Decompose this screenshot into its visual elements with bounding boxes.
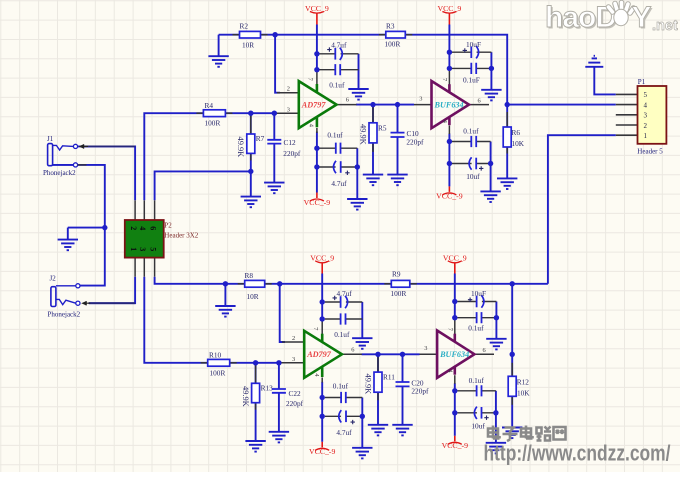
ground bottom BUF634 lower decoupling <box>486 443 506 454</box>
wire C12 column from pin3 node <box>273 113 275 140</box>
wire bottom AD797 lower cap right column to ground <box>361 398 363 448</box>
power VCC_-9 top BUF634 <box>436 186 463 200</box>
capacitor 0.1uf top AD797 positive rail <box>335 64 340 75</box>
svg-text:0.1uf: 0.1uf <box>334 330 350 339</box>
svg-text:AD797: AD797 <box>301 100 327 109</box>
pin numbers BUF634 bottom <box>424 328 486 374</box>
wire bottom output node junction to main row <box>511 284 513 355</box>
resistor R3 100R <box>379 31 413 38</box>
wire P1 pin 1 down to bottom channel row <box>548 135 616 284</box>
capacitor leads bottom AD797 clusters <box>325 302 363 416</box>
wire P1 pin 5 to earth <box>594 67 616 94</box>
wire bottom output row AD797 to BUF634 <box>362 353 420 355</box>
connector P1 Header 5 <box>638 86 667 144</box>
svg-text:100R: 100R <box>385 40 401 49</box>
wire R12 column <box>511 354 513 376</box>
svg-text:VCC_-9: VCC_-9 <box>304 198 331 207</box>
wire top feedback row R2-R3 to output corner <box>219 35 508 105</box>
svg-text:VCC_9: VCC_9 <box>443 253 467 262</box>
svg-text:P1: P1 <box>638 78 646 86</box>
svg-text:R6: R6 <box>512 128 521 137</box>
svg-text:R3: R3 <box>386 22 395 31</box>
wire AD797 pin 4 column to VCC_-9 <box>316 132 318 193</box>
svg-text:Header 5: Header 5 <box>637 148 663 156</box>
ground below R5 <box>363 175 383 186</box>
svg-text:P2: P2 <box>164 222 172 230</box>
wire J2 contact to P2 pin 1 <box>89 277 135 304</box>
power VCC_-9 top AD797 <box>304 193 331 207</box>
power VCC_-9 bottom AD797 <box>309 442 336 456</box>
svg-text:R4: R4 <box>205 101 214 110</box>
svg-text:6: 6 <box>483 347 486 354</box>
wire J1 tip dark pin overlay <box>84 145 135 147</box>
svg-text:Phonejack2: Phonejack2 <box>43 169 76 177</box>
wire bottom pin2 node drop to AD797 pin 2 <box>280 284 285 342</box>
svg-text:4: 4 <box>644 101 648 109</box>
svg-text:0.1uf: 0.1uf <box>469 376 485 385</box>
wire C20 column <box>402 354 404 382</box>
svg-text:100R: 100R <box>205 119 221 128</box>
resistor R9 100R <box>384 280 417 287</box>
svg-text:220pf: 220pf <box>406 137 424 146</box>
wire R7 column from pin3 node <box>250 113 252 134</box>
resistor R7 49.9K <box>247 114 255 160</box>
capacitor 0.1uf bottom AD797 negative rail <box>341 392 346 403</box>
ground phone jack common <box>58 240 78 251</box>
wire pin2 node drop to AD797 pin 2 <box>275 35 280 93</box>
capacitor C12 220pf <box>267 140 281 144</box>
svg-text:4.7uf: 4.7uf <box>337 289 353 298</box>
resistor R2 10R <box>233 31 268 38</box>
capacitor 4.7uf bottom AD797 positive rail <box>333 296 348 309</box>
svg-text:2: 2 <box>644 122 648 130</box>
svg-text:10R: 10R <box>247 292 259 301</box>
svg-text:4.7uf: 4.7uf <box>331 41 347 50</box>
pin numbers P2 <box>129 226 158 251</box>
wire bottom BUF634 VCC_9 column <box>454 274 456 320</box>
svg-text:0.1uf: 0.1uf <box>327 131 343 140</box>
resistor R10 100R <box>201 359 237 366</box>
buffer U-top BUF634 <box>432 81 470 128</box>
wire BUF634 top VCC_9 column <box>448 25 450 71</box>
svg-text:R11: R11 <box>383 373 395 382</box>
svg-text:10uf: 10uf <box>466 172 480 181</box>
svg-text:4: 4 <box>138 226 147 230</box>
svg-text:R12: R12 <box>517 378 530 387</box>
svg-text:C22: C22 <box>289 389 302 398</box>
ground top AD797 lower decoupling <box>347 199 367 210</box>
svg-text:2: 2 <box>129 226 138 230</box>
svg-text:3: 3 <box>419 96 422 103</box>
capacitor 10uF bottom BUF634 positive rail <box>468 295 484 307</box>
svg-text:49.9K: 49.9K <box>236 137 245 158</box>
ground bottom AD797 upper decoupling <box>352 338 372 349</box>
svg-text:4.7uf: 4.7uf <box>336 428 352 437</box>
svg-text:AD797: AD797 <box>306 350 332 359</box>
ground below C12 <box>264 183 284 194</box>
junction dots bottom half <box>223 281 515 419</box>
svg-text:J2: J2 <box>50 275 57 283</box>
wire BUF634 top upper cap right column to ground <box>490 52 492 90</box>
resistor R8 10R <box>238 280 272 287</box>
connector J2 Phonejack2 <box>51 284 90 307</box>
capacitor C10 220pf <box>391 133 405 137</box>
wire J2 contact dark pin overlay <box>89 302 136 304</box>
capacitor 0.1uf bottom AD797 positive rail <box>341 313 346 324</box>
capacitor leads top AD797 upper cluster <box>320 54 359 70</box>
pin stubs BUF634 top <box>414 68 489 134</box>
svg-text:BUF634: BUF634 <box>439 350 469 359</box>
pin numbers AD797 bottom <box>292 327 354 377</box>
svg-text:3: 3 <box>292 356 295 363</box>
svg-text:1: 1 <box>129 247 138 251</box>
wire top output node to P1 pin 4 <box>507 104 616 106</box>
wire J1 ring to common ground node and J2 tip <box>53 165 105 286</box>
pin numbers P1 <box>644 91 648 140</box>
wire BUF634 top pin 4 column to VCC_-9 <box>448 134 450 187</box>
resistor R6 10K <box>503 112 511 154</box>
svg-text:R10: R10 <box>209 350 222 359</box>
ground below C20 <box>392 425 412 436</box>
wire R11 column <box>377 354 379 372</box>
capacitor 0.1uf top AD797 negative rail <box>336 143 341 154</box>
pin stubs BUF634 bottom <box>420 318 495 384</box>
op-amp U-bottom AD797 <box>304 331 342 378</box>
svg-text:220pf: 220pf <box>411 387 429 396</box>
connector P2 Header 3X2 <box>125 220 164 258</box>
resistor R12 10K <box>508 363 516 405</box>
ground below R11 <box>368 425 388 436</box>
svg-text:10uF: 10uF <box>471 289 486 298</box>
ground top BUF634 upper decoupling <box>481 90 501 101</box>
resistor R13 49.9K <box>252 364 260 409</box>
capacitor 0.1uf bottom BUF634 negative rail <box>477 385 482 396</box>
svg-text:5: 5 <box>644 91 648 99</box>
svg-text:3: 3 <box>287 107 290 114</box>
wire R5 column <box>372 105 374 123</box>
wire top AD797 lower cap right column to ground <box>356 148 358 199</box>
capacitor 4.7uf top AD797 negative rail <box>334 161 350 175</box>
svg-text:http://www.cndzz.com/: http://www.cndzz.com/ <box>484 441 672 466</box>
svg-text:0.1uf: 0.1uf <box>468 323 484 332</box>
svg-text:haoD: haoD <box>545 1 616 34</box>
svg-text:220pf: 220pf <box>286 399 304 408</box>
resistor R4 100R <box>196 110 232 117</box>
svg-text:2: 2 <box>292 335 295 342</box>
wire bottom AD797 upper cap right column to ground <box>361 302 363 338</box>
svg-text:100R: 100R <box>391 289 407 298</box>
ground bottom AD797 lower decoupling <box>352 448 372 459</box>
wire feedback-reference row P2 pin6 to R7 bottom <box>155 171 251 200</box>
power VCC_9 bottom BUF634 <box>443 253 467 273</box>
capacitor leads top BUF634 clusters <box>452 52 491 163</box>
power pin bars BUF634 bottom <box>453 334 456 375</box>
svg-text:100R: 100R <box>210 369 226 378</box>
wire bottom main row P2 pin5 - R8 - R9 - P1 corner <box>155 277 548 284</box>
wire J1 tip to P2 pin 2 <box>78 146 136 200</box>
earth ground symbol above P1 pin 5 <box>585 56 603 67</box>
haoDIY.net watermark logo <box>545 1 678 36</box>
svg-text:5: 5 <box>148 247 157 251</box>
svg-text:0.1uf: 0.1uf <box>329 81 345 90</box>
capacitor C22 220pf <box>272 389 286 393</box>
capacitor 4.7uf bottom AD797 negative rail <box>339 410 355 424</box>
svg-text:R7: R7 <box>256 134 265 143</box>
svg-text:J1: J1 <box>47 135 54 143</box>
power pin bars AD797 top <box>316 84 319 127</box>
svg-text:3: 3 <box>644 112 648 120</box>
cndzz.com watermark text <box>484 426 672 466</box>
svg-text:.net: .net <box>652 18 678 34</box>
op-amp U-top AD797 <box>299 81 337 128</box>
pin stubs P1 header <box>616 94 638 135</box>
capacitor 10uf top BUF634 negative rail <box>469 157 483 170</box>
svg-text:VCC_9: VCC_9 <box>310 253 334 262</box>
svg-text:C12: C12 <box>284 138 297 147</box>
pin numbers BUF634 top <box>419 78 481 124</box>
resistor R5 49.9K <box>369 106 377 152</box>
ground bottom BUF634 upper decoupling <box>486 339 506 350</box>
connector J1 Phonejack2 <box>48 144 88 167</box>
svg-text:2: 2 <box>287 86 290 93</box>
capacitor 0.1uF bottom BUF634 positive rail <box>477 312 482 323</box>
svg-text:6: 6 <box>346 97 349 104</box>
ground top BUF634 lower decoupling <box>480 191 500 202</box>
junction dots top half <box>102 32 510 230</box>
capacitor C20 220pf <box>396 382 410 386</box>
svg-text:1: 1 <box>644 132 648 140</box>
svg-text:VCC_9: VCC_9 <box>437 4 461 13</box>
svg-text:R2: R2 <box>240 22 249 31</box>
svg-text:49.9K: 49.9K <box>241 386 250 407</box>
ground below C22 <box>269 432 289 443</box>
svg-text:0.1uF: 0.1uF <box>463 75 480 84</box>
resistor R11 49.9K <box>374 355 382 400</box>
svg-text:10R: 10R <box>242 40 254 49</box>
svg-text:VCC_-9: VCC_-9 <box>309 447 336 456</box>
wire R8 ground node drop <box>224 284 226 306</box>
svg-text:10K: 10K <box>512 139 525 148</box>
svg-text:0.1uf: 0.1uf <box>463 126 479 135</box>
capacitor 10uf bottom BUF634 negative rail <box>474 407 488 420</box>
pin stubs P2 header <box>135 200 155 276</box>
ground below R13 <box>245 441 265 452</box>
pin numbers AD797 top <box>287 78 349 128</box>
wire BUF634 top lower cap right column to ground <box>490 142 492 192</box>
wire bottom BUF634 upper cap right column to ground <box>495 302 497 339</box>
svg-text:VCC_9: VCC_9 <box>305 4 329 13</box>
ground at R2 left <box>208 56 228 67</box>
ground top AD797 upper decoupling <box>348 89 368 100</box>
wire VCC_9 column to AD797 pin 7 <box>316 25 318 71</box>
wire bottom BUF634 lower cap right column to ground <box>495 391 497 443</box>
svg-text:3: 3 <box>424 345 427 352</box>
ground below R12 <box>502 428 522 439</box>
wire R2 left to ground <box>218 35 220 57</box>
capacitor 0.1uF top BUF634 positive rail <box>471 63 476 74</box>
wire top AD797 upper cap right column to ground <box>358 54 360 89</box>
svg-text:6: 6 <box>148 226 157 230</box>
power VCC_9 top AD797 <box>305 4 329 25</box>
wire R6 column <box>506 105 508 127</box>
wire bottom VCC_9 column to AD797 pin 7 <box>321 274 323 321</box>
power VCC_9 top BUF634 <box>437 4 461 25</box>
wire bottom AD797 pin 4 column to VCC_-9 <box>321 382 323 442</box>
svg-text:220pf: 220pf <box>283 149 301 158</box>
svg-text:4.7uf: 4.7uf <box>331 179 347 188</box>
wire R13 column from bottom pin3 node <box>255 363 257 384</box>
svg-text:6: 6 <box>351 346 354 353</box>
wire C10 column <box>397 105 399 133</box>
capacitor leads top AD797 lower cluster <box>320 148 358 167</box>
svg-text:R9: R9 <box>392 269 401 278</box>
wire C22 column from bottom pin3 node <box>278 363 280 389</box>
capacitor 0.1uf top BUF634 negative rail <box>471 136 476 147</box>
pin stubs AD797 top <box>274 70 356 133</box>
svg-text:R8: R8 <box>245 271 254 280</box>
svg-text:49.9K: 49.9K <box>359 124 368 145</box>
capacitor 10uF top BUF634 positive rail <box>463 46 479 58</box>
capacitor 4.7uf top AD797 positive rail <box>327 47 342 60</box>
buffer U-bottom BUF634 <box>437 331 474 378</box>
svg-text:10uf: 10uf <box>471 421 485 430</box>
svg-text:R13: R13 <box>261 383 274 392</box>
svg-text:49.9K: 49.9K <box>363 374 372 395</box>
svg-text:VCC_-9: VCC_-9 <box>436 192 463 201</box>
power VCC_9 bottom AD797 <box>310 253 334 273</box>
svg-text:0.1uf: 0.1uf <box>333 382 349 391</box>
svg-text:BUF634: BUF634 <box>434 100 464 109</box>
ground at R8 left <box>215 306 235 317</box>
svg-text:R5: R5 <box>378 124 387 133</box>
ground below R7 <box>241 197 261 208</box>
power pin bars AD797 bottom <box>321 334 324 377</box>
svg-text:Header 3X2: Header 3X2 <box>164 232 199 240</box>
power pin bars BUF634 top <box>448 84 451 125</box>
svg-text:VCC_-9: VCC_-9 <box>442 441 469 450</box>
ground below C10 <box>387 175 407 186</box>
wire R10 input row from P2 pin 3 <box>144 277 281 363</box>
pin stubs AD797 bottom <box>279 319 362 383</box>
wire R4 input row from P2 pin 4 <box>144 113 277 200</box>
wire bottom BUF634 pin 4 column to VCC_-9 <box>454 383 456 436</box>
svg-text:6: 6 <box>478 98 481 105</box>
wire ground node to J common ground symbol <box>68 227 105 229</box>
svg-text:Y: Y <box>632 1 652 34</box>
capacitor leads bottom BUF634 clusters <box>457 302 496 413</box>
ground below R6 <box>497 178 517 189</box>
svg-text:10K: 10K <box>517 388 530 397</box>
svg-text:10uF: 10uF <box>466 40 481 49</box>
svg-text:3: 3 <box>138 247 147 251</box>
svg-text:Phonejack2: Phonejack2 <box>48 310 81 318</box>
wire output row AD797 to BUF634 <box>356 104 414 106</box>
power VCC_-9 bottom BUF634 <box>442 436 469 450</box>
